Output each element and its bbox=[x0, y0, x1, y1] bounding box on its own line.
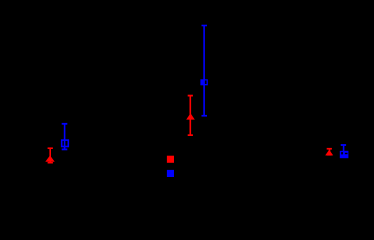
vertical bar bbox=[64, 124, 66, 151]
top cap bbox=[341, 144, 346, 146]
bottom cap bbox=[48, 162, 53, 164]
red errorbar point 1 (left) bbox=[45, 147, 54, 163]
vertical bar bbox=[343, 145, 345, 152]
top cap bbox=[188, 95, 193, 97]
triangle marker bbox=[325, 150, 333, 156]
bottom cap bbox=[327, 154, 332, 156]
blue errorbar point 3 (right, mostly filled square) bbox=[340, 144, 349, 158]
legend blue square bbox=[167, 170, 174, 177]
top cap bbox=[48, 147, 53, 149]
open square marker bbox=[61, 139, 69, 147]
vertical bar bbox=[203, 26, 205, 117]
vertical bar bbox=[190, 96, 192, 136]
bottom cap bbox=[202, 115, 208, 117]
bottom cap bbox=[188, 134, 193, 136]
red errorbar point 3 (right, short) bbox=[325, 148, 333, 156]
triangle marker bbox=[45, 155, 54, 161]
triangle marker bbox=[186, 113, 195, 119]
blue errorbar point 1 (left, open square) bbox=[61, 123, 69, 150]
square marker bbox=[340, 151, 349, 158]
bottom cap bbox=[62, 149, 68, 151]
top cap bbox=[327, 148, 332, 150]
top cap bbox=[202, 25, 208, 27]
top cap bbox=[62, 123, 68, 125]
blue errorbar point 2 (middle, tall bar, half-filled square) bbox=[200, 25, 207, 117]
vertical bar bbox=[49, 148, 51, 163]
vertical bar bbox=[329, 149, 331, 156]
legend red square bbox=[167, 156, 174, 163]
red errorbar point 2 (middle) bbox=[186, 95, 195, 136]
square marker bbox=[200, 79, 207, 85]
